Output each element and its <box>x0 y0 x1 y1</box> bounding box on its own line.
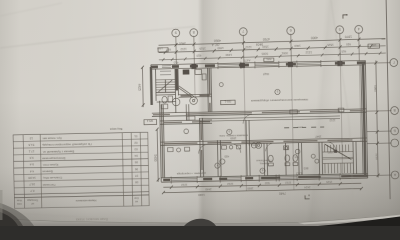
diagonal partition upper-left <box>177 86 194 98</box>
header top line <box>14 195 149 198</box>
small boxed label on top wall <box>264 57 274 61</box>
room text block right-mid <box>256 158 271 165</box>
table row texts <box>41 136 92 187</box>
table row lines <box>13 139 149 194</box>
bottom window dim texts <box>181 180 333 192</box>
bottom wall <box>161 173 368 184</box>
svg-text:А475: А475 <box>243 58 250 62</box>
boxed label PL-1 left <box>157 46 168 52</box>
svg-text:Г: Г <box>393 60 395 64</box>
top dimension line tier1 <box>158 37 385 47</box>
svg-text:помещ.: помещ. <box>259 162 268 165</box>
table column lines <box>23 132 142 208</box>
svg-text:ЭЛ-1: ЭЛ-1 <box>146 119 153 123</box>
svg-text:5430: 5430 <box>153 154 157 161</box>
svg-text:51,8: 51,8 <box>28 143 34 147</box>
axis circle 5 <box>336 26 344 34</box>
right vertical dimension line <box>373 60 380 177</box>
faint crease above bottom edge <box>0 213 142 221</box>
svg-text:13: 13 <box>29 136 33 140</box>
curl highlight bottom-right <box>298 215 400 224</box>
left wall upper <box>151 65 156 105</box>
svg-text:01: 01 <box>134 134 138 138</box>
svg-text:450: 450 <box>224 154 229 158</box>
columns on top wall <box>191 61 342 69</box>
svg-text:Кол: Кол <box>134 196 139 200</box>
axis leader lines <box>176 32 360 64</box>
svg-text:1212: 1212 <box>180 47 187 51</box>
duct lines below corridor wall <box>200 116 340 121</box>
svg-text:5005: 5005 <box>261 52 268 56</box>
L mark bottom right of plan <box>305 195 310 199</box>
faint diagonal crease top-left <box>0 27 195 49</box>
axis circle 3 <box>239 28 247 36</box>
left wall lower <box>160 101 165 182</box>
left lower vertical dimension line <box>153 128 160 182</box>
circle fixture small <box>220 159 225 164</box>
svg-text:1530: 1530 <box>262 45 269 49</box>
small number texts bottom rooms <box>222 71 334 161</box>
toilets bottom rooms <box>268 145 319 166</box>
x176 wall dark pier <box>175 68 178 90</box>
upper-left bathroom fixtures <box>161 96 198 109</box>
horizontal wall y95 upper-left <box>178 94 211 97</box>
small box on corridor wall <box>187 116 195 120</box>
right axis circles <box>389 59 400 179</box>
table outline <box>13 132 149 208</box>
svg-text:1599: 1599 <box>230 136 237 140</box>
stair upper-left <box>156 71 176 92</box>
svg-text:04: 04 <box>134 154 138 158</box>
bottom edge shadow below paper <box>0 216 400 227</box>
top wall <box>151 59 366 70</box>
svg-text:3210: 3210 <box>375 153 379 160</box>
svg-text:В03: В03 <box>303 166 308 170</box>
interior wall vertical x209 <box>207 68 211 113</box>
axis circle 4 <box>287 27 295 35</box>
axis circle 1 <box>172 29 180 37</box>
door swing arcs <box>198 113 336 154</box>
stair landing partition <box>156 92 176 102</box>
corridor top wall <box>152 109 367 117</box>
svg-text:ПЛ1: ПЛ1 <box>266 57 272 61</box>
right-mid small texts <box>295 118 337 175</box>
washbasin row along corridor <box>168 145 241 152</box>
svg-text:1ПЛ: 1ПЛ <box>157 46 163 50</box>
EL box outside left wall <box>144 119 157 125</box>
svg-text:06: 06 <box>134 167 138 171</box>
svg-text:1212: 1212 <box>181 183 188 187</box>
svg-text:1515: 1515 <box>326 180 333 184</box>
bottom dimension line tier2 <box>162 187 363 198</box>
svg-text:05: 05 <box>134 160 138 164</box>
table header texts <box>17 196 139 205</box>
dark curl shadow bottom-right <box>318 217 400 227</box>
svg-text:вент: вент <box>297 125 303 128</box>
svg-text:1490: 1490 <box>225 53 232 57</box>
window thin lines top wall <box>162 63 321 68</box>
svg-text:ПЛ-1: ПЛ-1 <box>224 99 231 103</box>
left vertical dimension line <box>137 66 145 108</box>
svg-text:ПЛ: ПЛ <box>295 155 299 159</box>
svg-text:1870: 1870 <box>345 35 352 39</box>
svg-text:02: 02 <box>134 141 138 145</box>
table room number column <box>134 134 139 184</box>
svg-text:915: 915 <box>341 49 346 53</box>
svg-text:4: 4 <box>358 27 360 31</box>
svg-text:8: 8 <box>193 30 195 34</box>
interior wall vertical x176 <box>175 68 179 113</box>
boxed label PV-1 right <box>368 43 380 48</box>
svg-text:07: 07 <box>135 174 139 178</box>
interior verticals bottom section <box>217 118 357 176</box>
svg-text:1490: 1490 <box>217 46 224 50</box>
second fold crease right <box>305 0 343 230</box>
bottom dimension line tier1 <box>163 182 361 189</box>
svg-text:4900: 4900 <box>311 36 318 40</box>
PL-1 box label in big room <box>221 99 236 105</box>
interior vertical wall x200 <box>199 118 203 177</box>
window tick marks top wall <box>218 60 321 69</box>
svg-text:1ПВ: 1ПВ <box>371 43 377 47</box>
svg-text:03: 03 <box>134 147 138 151</box>
WC fixtures upper-left room <box>183 69 206 80</box>
top dimension line tier2 <box>159 44 386 54</box>
small circle near wall <box>219 83 223 87</box>
vertical fold band <box>197 0 217 223</box>
axis circle 2 <box>190 29 198 37</box>
svg-text:7440: 7440 <box>279 191 286 195</box>
svg-text:910: 910 <box>264 181 269 185</box>
svg-text:5980: 5980 <box>373 85 377 92</box>
corridor bottom wall <box>160 138 367 145</box>
dash fixtures row mid <box>284 126 324 129</box>
tier2 dimension texts <box>166 42 351 51</box>
svg-text:ОЦЛ: ОЦЛ <box>263 72 269 76</box>
svg-text:920: 920 <box>346 42 351 46</box>
axis circle 6 <box>355 25 363 33</box>
svg-text:4750: 4750 <box>263 37 270 41</box>
room number circles <box>183 89 300 175</box>
svg-text:1212: 1212 <box>305 50 312 54</box>
interior wall left-mid vertical <box>186 104 189 120</box>
svg-text:6: 6 <box>290 28 292 32</box>
svg-text:Вид мира: Вид мира <box>109 127 122 131</box>
svg-text:1212: 1212 <box>285 181 292 185</box>
svg-text:7: 7 <box>242 29 244 33</box>
svg-text:9: 9 <box>175 31 177 35</box>
top dimension line tier3 <box>159 52 386 62</box>
svg-text:0409: 0409 <box>256 42 263 46</box>
right wall <box>361 60 368 178</box>
svg-text:4425: 4425 <box>137 84 141 91</box>
tier1 dimension texts <box>179 35 353 49</box>
interior wall left-mid horizontal <box>160 120 212 124</box>
right axis leader lines <box>365 63 393 176</box>
svg-text:Ванная с бумажной эл.: Ванная с бумажной эл. <box>42 149 74 154</box>
svg-text:1460: 1460 <box>294 44 301 48</box>
svg-text:3001: 3001 <box>281 51 288 55</box>
svg-text:08: 08 <box>135 180 139 184</box>
drain double circle <box>255 142 261 148</box>
table area numbers <box>27 136 36 193</box>
gamma mark above plan <box>343 14 348 19</box>
svg-text:3460: 3460 <box>179 41 186 45</box>
svg-text:1212: 1212 <box>227 182 234 186</box>
dark arc notch bottom middle <box>184 219 216 226</box>
paper edge line <box>0 216 400 224</box>
svg-text:Электрощитовая: Электрощитовая <box>42 156 66 160</box>
svg-text:1890: 1890 <box>247 186 254 190</box>
stair bottom-right <box>323 143 354 173</box>
dark bottom-left corner <box>0 203 34 226</box>
wall solid chunks top <box>151 63 365 67</box>
axis lines through building <box>194 65 361 192</box>
svg-text:Кух.-ниша авт.: Кух.-ниша авт. <box>42 136 62 140</box>
svg-text:925: 925 <box>166 48 171 52</box>
svg-text:3,8: 3,8 <box>29 156 34 160</box>
tier3 window dim texts <box>173 49 346 64</box>
bottom-left corner soft shade <box>0 0 1 1</box>
svg-text:1212: 1212 <box>245 45 252 49</box>
sheet frame line right <box>386 0 390 199</box>
boxes on corridor wall right <box>290 110 298 114</box>
svg-text:17,1: 17,1 <box>28 149 34 153</box>
